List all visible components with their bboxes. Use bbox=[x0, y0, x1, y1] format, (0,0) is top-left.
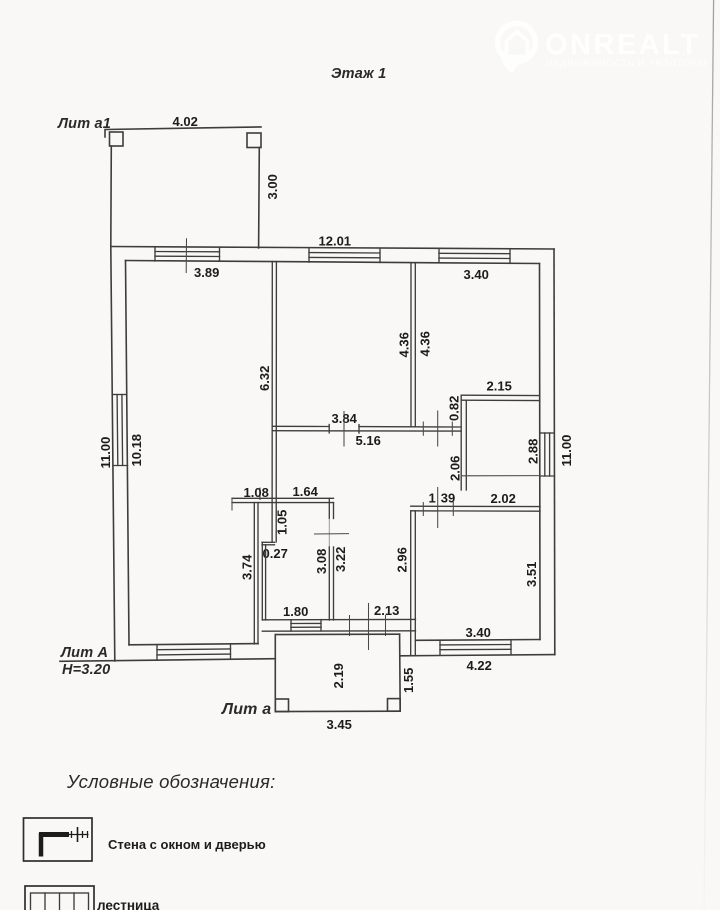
svg-text:3.40: 3.40 bbox=[466, 625, 491, 640]
bathroom door open leaf bbox=[328, 519, 330, 548]
svg-text:1.64: 1.64 bbox=[293, 484, 319, 499]
bathroom left wall jog bbox=[262, 542, 275, 545]
svg-text:3.22: 3.22 bbox=[333, 547, 348, 572]
porch a1 right post bbox=[247, 133, 261, 148]
svg-text:4.22: 4.22 bbox=[467, 658, 492, 673]
svg-text:5.16: 5.16 bbox=[356, 433, 381, 448]
outer wall left bbox=[111, 247, 115, 662]
svg-text:12.01: 12.01 bbox=[319, 234, 352, 249]
svg-text:1.80: 1.80 bbox=[283, 604, 308, 619]
window bottom wall left room bbox=[157, 644, 231, 660]
bottom right room left wall bbox=[411, 511, 416, 655]
watermark logo ONREALT bbox=[498, 24, 708, 70]
window left wall bbox=[112, 395, 127, 466]
svg-text:2.02: 2.02 bbox=[491, 491, 516, 506]
svg-text:3.74: 3.74 bbox=[240, 554, 255, 580]
outer wall right bbox=[553, 249, 556, 655]
svg-text:H=3.20: H=3.20 bbox=[62, 662, 110, 678]
svg-text:3.40: 3.40 bbox=[464, 267, 489, 282]
middle room bottom wall bbox=[272, 425, 461, 434]
svg-text:ONREALT: ONREALT bbox=[545, 29, 701, 61]
svg-text:3.89: 3.89 bbox=[194, 265, 219, 280]
svg-text:139: 139 bbox=[429, 490, 456, 505]
svg-text:3.08: 3.08 bbox=[314, 549, 329, 574]
svg-text:2.15: 2.15 bbox=[487, 379, 512, 394]
svg-text:4.02: 4.02 bbox=[173, 114, 198, 129]
watermark pin icon bbox=[498, 24, 536, 70]
partition middle/right room bbox=[411, 263, 415, 427]
legend staircase symbol bbox=[31, 893, 89, 910]
outer wall top bbox=[111, 247, 554, 250]
svg-text:10.18: 10.18 bbox=[129, 434, 144, 467]
porch a1 left wall bbox=[110, 146, 113, 247]
svg-text:1.55: 1.55 bbox=[401, 668, 416, 693]
svg-text:Лит а: Лит а bbox=[221, 701, 271, 718]
legend wall symbol bbox=[39, 827, 89, 857]
outer wall bottom left segment bbox=[60, 659, 275, 662]
svg-text:0.82: 0.82 bbox=[447, 396, 462, 421]
svg-text:3.84: 3.84 bbox=[332, 411, 358, 426]
svg-text:11.00: 11.00 bbox=[559, 435, 574, 467]
wall 1.08/1.64 bbox=[232, 498, 334, 502]
porch a right post bbox=[388, 699, 401, 712]
svg-text:3.00: 3.00 bbox=[265, 174, 280, 199]
svg-text:Стена с окном и дверью: Стена с окном и дверью bbox=[108, 837, 266, 852]
porch a1 top line bbox=[105, 127, 261, 137]
svg-text:4.36: 4.36 bbox=[418, 331, 433, 356]
window right wall bbox=[540, 433, 554, 476]
svg-text:6.32: 6.32 bbox=[257, 366, 272, 391]
bathroom and corridor bottom wall bbox=[262, 619, 415, 631]
porch a1 left post bbox=[110, 132, 124, 146]
svg-text:Условные обозначения:: Условные обозначения: bbox=[66, 771, 275, 792]
door 1.39 ticks bbox=[423, 487, 453, 528]
svg-text:лестница: лестница bbox=[97, 898, 160, 910]
partition left room upper bbox=[272, 262, 276, 542]
window W2 top wall middle room bbox=[309, 248, 380, 263]
svg-text:2.96: 2.96 bbox=[395, 547, 410, 572]
window W1 top wall left room bbox=[155, 247, 220, 262]
dimension extension 3.84/5.16 bbox=[343, 411, 345, 447]
wall 2.02 bbox=[411, 506, 540, 511]
svg-text:Лит а1: Лит а1 bbox=[57, 116, 111, 132]
bathroom door sill bbox=[314, 533, 349, 535]
svg-text:2.06: 2.06 bbox=[448, 456, 463, 481]
svg-text:3.45: 3.45 bbox=[327, 717, 352, 732]
outer wall bottom right segment bbox=[401, 655, 555, 656]
inner wall right bbox=[539, 264, 542, 640]
bathroom left wall lower bbox=[262, 542, 265, 620]
svg-text:Лит А: Лит А bbox=[60, 645, 108, 661]
svg-text:11.00: 11.00 bbox=[98, 437, 113, 469]
svg-text:1.08: 1.08 bbox=[244, 485, 269, 500]
tick 1.08/1.64 divider bbox=[259, 488, 261, 501]
inner wall bottom left room bbox=[129, 644, 258, 645]
closet 2.15 top wall bbox=[461, 395, 540, 400]
svg-text:Этаж 1: Этаж 1 bbox=[331, 66, 386, 82]
svg-text:0.27: 0.27 bbox=[263, 546, 288, 561]
inner wall bottom right room bbox=[416, 639, 541, 642]
svg-text:4.36: 4.36 bbox=[397, 332, 412, 357]
svg-text:2.13: 2.13 bbox=[374, 603, 399, 618]
door 0.82 ticks bbox=[423, 411, 452, 447]
svg-text:2.88: 2.88 bbox=[526, 439, 541, 464]
inner wall top bbox=[126, 261, 540, 264]
tick 1.08 left bbox=[231, 498, 233, 510]
window W3 top wall right room bbox=[439, 249, 510, 264]
window W1 center tick bbox=[185, 238, 187, 273]
partition left room lower bbox=[254, 503, 258, 644]
porch a left post bbox=[275, 699, 288, 712]
legend box staircase bbox=[25, 886, 94, 910]
bathroom right wall lower bbox=[329, 547, 333, 620]
door 2.13 ticks bbox=[350, 603, 386, 650]
svg-text:1.05: 1.05 bbox=[275, 510, 290, 535]
porch a1 right wall bbox=[258, 148, 261, 249]
svg-text:3.51: 3.51 bbox=[524, 562, 539, 587]
legend box wall with window and door bbox=[24, 818, 93, 861]
bathroom right wall upper bbox=[329, 498, 333, 518]
closet 2.15 left wall bbox=[461, 395, 466, 490]
inner wall left bbox=[126, 261, 130, 645]
window bottom wall right room bbox=[440, 640, 511, 656]
porch a bottom bbox=[275, 634, 400, 711]
bathroom window hatch bbox=[291, 620, 321, 632]
scan page edge line bbox=[704, 0, 714, 910]
svg-text:НЕДВИЖИМОСТЬ И РИЭЛТОРЫ: НЕДВИЖИМОСТЬ И РИЭЛТОРЫ bbox=[546, 58, 707, 68]
window sill line right bbox=[462, 475, 541, 477]
svg-text:2.19: 2.19 bbox=[331, 663, 346, 688]
